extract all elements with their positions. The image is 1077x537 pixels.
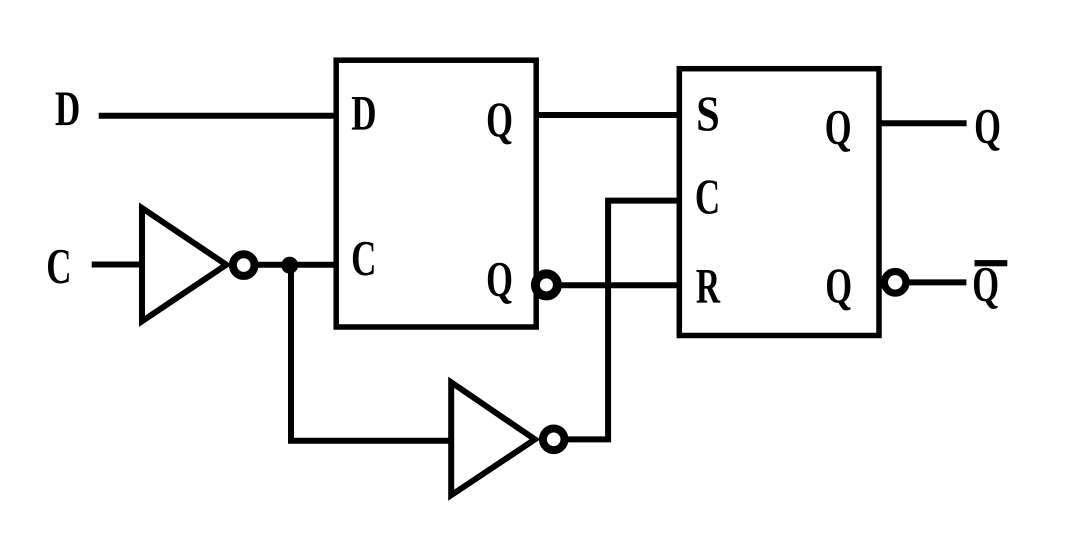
svg-text:R: R xyxy=(696,259,721,314)
svg-text:Q: Q xyxy=(825,101,852,156)
svg-text:Q: Q xyxy=(974,100,1001,155)
svg-text:C: C xyxy=(351,232,376,286)
svg-text:C: C xyxy=(695,170,720,224)
svg-text:Q: Q xyxy=(825,259,852,314)
svg-text:D: D xyxy=(55,82,80,136)
svg-text:Q: Q xyxy=(486,93,513,148)
svg-text:C: C xyxy=(46,240,71,294)
svg-text:Q: Q xyxy=(486,252,513,307)
svg-text:S: S xyxy=(696,87,720,142)
svg-text:D: D xyxy=(351,86,376,140)
